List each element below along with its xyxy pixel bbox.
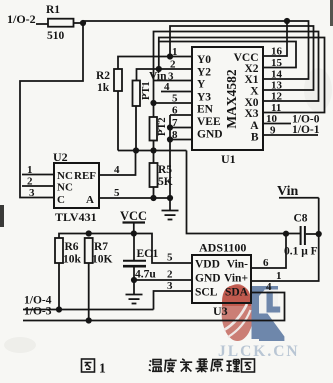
wire pin7 VEE line [170, 127, 192, 129]
char ji (gather) [196, 359, 208, 372]
svg-text:NC: NC [57, 170, 73, 182]
ground symbol below EC1 [126, 295, 143, 304]
svg-text:5K: 5K [158, 176, 173, 188]
svg-text:16: 16 [271, 46, 283, 58]
junction dot rail1/VCC pin16 [284, 18, 290, 24]
svg-text:4: 4 [164, 81, 170, 93]
junction dot A line ground [167, 195, 173, 201]
capacitor EC1 [123, 234, 146, 295]
svg-text:A: A [250, 120, 259, 132]
wire rail1: R1 node across top to X1 [83, 21, 309, 79]
resistor R7 [85, 238, 93, 321]
svg-text:R6: R6 [65, 241, 79, 253]
char tu (figure) [82, 359, 95, 372]
svg-text:PT1: PT1 [141, 81, 152, 100]
svg-text:10k: 10k [63, 254, 82, 266]
svg-text:JLCK.CN: JLCK.CN [218, 343, 300, 360]
wire U2 pin5 A line [99, 197, 170, 199]
svg-text:U1: U1 [221, 152, 236, 166]
wire VCC rail [59, 234, 192, 264]
wire pin10 A stub [263, 123, 291, 125]
svg-text:Y3: Y3 [197, 92, 211, 104]
svg-text:U2: U2 [53, 150, 68, 164]
svg-text:1: 1 [172, 46, 178, 58]
svg-text:A: A [86, 194, 94, 206]
junction dot pin5/Vin chain [150, 100, 156, 106]
svg-text:10K: 10K [92, 254, 113, 266]
junction dot pin1 [167, 53, 173, 59]
wire I/O-2 to R1 [36, 23, 48, 25]
svg-text:4: 4 [266, 281, 272, 293]
junction dot VCC rail [131, 230, 137, 236]
junction dot EC1/GND line [131, 277, 137, 283]
junction dot PT1 bottom [133, 147, 139, 153]
svg-text:TLV431: TLV431 [55, 210, 97, 224]
svg-text:7: 7 [172, 117, 178, 129]
op-amp U3 ADS1100 body [192, 255, 251, 303]
resistor R1 [48, 19, 83, 27]
svg-text:1/O-3: 1/O-3 [24, 306, 52, 318]
junction dot R7 bottom [86, 317, 92, 323]
wire pin6 EN line [170, 114, 192, 116]
resistor R2 [114, 69, 122, 151]
junction dot PT2 bottom [150, 147, 156, 153]
svg-text:C8: C8 [294, 213, 308, 225]
wire rail5: X2 link [159, 42, 296, 68]
svg-text:PT2: PT2 [157, 117, 168, 136]
svg-text:SDA: SDA [225, 287, 249, 299]
ground symbol at A line [169, 198, 171, 211]
wire pin1 Y0 line with R2 top [118, 57, 192, 70]
junction dot R5 bottom [150, 195, 156, 201]
svg-text:X3: X3 [244, 108, 258, 120]
wire I/O-3 line to SDA [23, 293, 285, 321]
wire EN/VEE/GND vertical to ground rail [169, 115, 171, 198]
svg-text:B: B [251, 132, 259, 144]
wire rail3: Vin chain to X0 [154, 32, 319, 102]
junction dot C8 left [283, 231, 289, 237]
svg-text:VDD: VDD [195, 259, 220, 271]
wire pin3 Vin line [154, 80, 193, 82]
svg-text:EC1: EC1 [137, 248, 159, 260]
caption figure title (CJK drawn as strokes) [82, 358, 255, 375]
svg-text:1k: 1k [97, 82, 110, 94]
svg-text:Y0: Y0 [197, 54, 211, 66]
junction dot pin2 [156, 66, 162, 72]
wire U2 pin3 from R1 node [20, 23, 83, 198]
svg-text:1: 1 [276, 270, 282, 282]
watermark logo blue K [252, 286, 285, 341]
wire rail2: Y0 to X [170, 26, 314, 90]
svg-text:1: 1 [99, 361, 106, 376]
svg-text:Y2: Y2 [197, 67, 211, 79]
svg-text:8: 8 [172, 129, 178, 141]
svg-text:VCC: VCC [120, 209, 147, 223]
svg-text:2: 2 [27, 176, 33, 188]
junction dot R7 top [86, 230, 92, 236]
wire pin4 stub NC [161, 91, 192, 93]
svg-text:5: 5 [114, 187, 120, 199]
svg-text:GND: GND [195, 273, 221, 285]
svg-text:Vin+: Vin+ [224, 273, 248, 285]
svg-text:Vin: Vin [277, 184, 298, 199]
svg-text:1: 1 [27, 164, 33, 176]
char yuan (origin) [211, 360, 223, 372]
wire ground to Vin- node [187, 151, 301, 234]
svg-text:12: 12 [271, 91, 283, 103]
wire U3 pin1 Vin+ up to C8 node [251, 198, 319, 281]
svg-text:EN: EN [197, 104, 214, 116]
svg-text:X1: X1 [244, 74, 258, 86]
svg-text:2: 2 [170, 59, 176, 71]
wire pin9 B stub [263, 134, 318, 136]
svg-text:MAX4582: MAX4582 [224, 69, 239, 128]
svg-text:1/O-2: 1/O-2 [7, 12, 36, 26]
sensor PT2 [150, 117, 158, 151]
wire pin5 Y3 line [154, 102, 193, 104]
junction dot C8 right [316, 231, 322, 237]
svg-text:NC: NC [57, 182, 73, 194]
svg-text:3: 3 [167, 280, 173, 292]
junction dot R6 bottom [56, 306, 62, 312]
svg-text:3: 3 [29, 187, 35, 199]
svg-text:4.7u: 4.7u [135, 269, 156, 281]
svg-text:R5: R5 [158, 164, 172, 176]
wire U3 SCL to I/O-4 [154, 291, 193, 310]
svg-text:5: 5 [172, 93, 178, 105]
svg-text:1/O-1: 1/O-1 [292, 124, 320, 136]
op-amp U1 MAX4582 body [192, 47, 263, 150]
capacitor C8 [301, 226, 319, 245]
svg-text:R7: R7 [94, 241, 108, 253]
junction dot pin7 [167, 124, 173, 130]
svg-text:X: X [250, 86, 259, 98]
wire U3 GND line to EC1 [134, 279, 192, 281]
svg-text:R1: R1 [46, 4, 60, 16]
resistor R5 [150, 151, 158, 199]
wire I/O-4 line [23, 309, 154, 311]
wire U2 pin4 REF to ground rail [99, 151, 136, 176]
char wen (warm) [149, 360, 163, 372]
wire U2 pin2 stub [22, 185, 54, 187]
svg-text:Y: Y [197, 79, 206, 91]
wire U3 pin6 Vin- up to C8 node [251, 234, 286, 268]
wire Vin output [279, 197, 319, 199]
svg-text:6: 6 [263, 257, 269, 269]
svg-text:4: 4 [114, 164, 120, 176]
svg-text:6: 6 [172, 105, 178, 117]
svg-text:GND: GND [197, 129, 223, 141]
char tu2 (figure) [242, 359, 255, 372]
svg-text:VEE: VEE [197, 116, 221, 128]
svg-text:ADS1100: ADS1100 [199, 241, 246, 255]
svg-text:5: 5 [167, 252, 173, 264]
svg-text:U3: U3 [213, 304, 228, 318]
wire rail4: Y2 to X3 [159, 38, 325, 113]
svg-text:C: C [57, 194, 65, 206]
watermark logo red crescent [222, 284, 254, 341]
char cai (collect) [180, 359, 192, 372]
wire U2 pin1 stub [22, 174, 54, 176]
junction dot pin8 [167, 136, 173, 142]
wire pin8 GND line [170, 139, 192, 141]
wire Vin chain pin3 to PT2 [153, 81, 155, 118]
wire pin2 Y2 line with PT1 top [137, 69, 193, 81]
op-amp U2 TLV431 body [54, 163, 99, 208]
svg-text:510: 510 [47, 30, 65, 42]
char li (logic) [226, 360, 239, 372]
svg-text:0.1 μ F: 0.1 μ F [284, 246, 318, 258]
junction dot R1 out [80, 20, 86, 26]
svg-text:15: 15 [271, 57, 283, 69]
svg-text:Vin-: Vin- [227, 259, 248, 271]
svg-text:REF: REF [74, 170, 96, 182]
resistor R6 [55, 238, 63, 310]
svg-text:SCL: SCL [195, 287, 218, 299]
wire pin16 VCC drop [263, 21, 287, 56]
sensor PT1 [133, 81, 141, 151]
svg-text:2: 2 [167, 269, 173, 281]
wire ground rail under sensors [118, 150, 187, 152]
svg-text:R2: R2 [96, 70, 110, 82]
char du (degree) [165, 358, 177, 372]
